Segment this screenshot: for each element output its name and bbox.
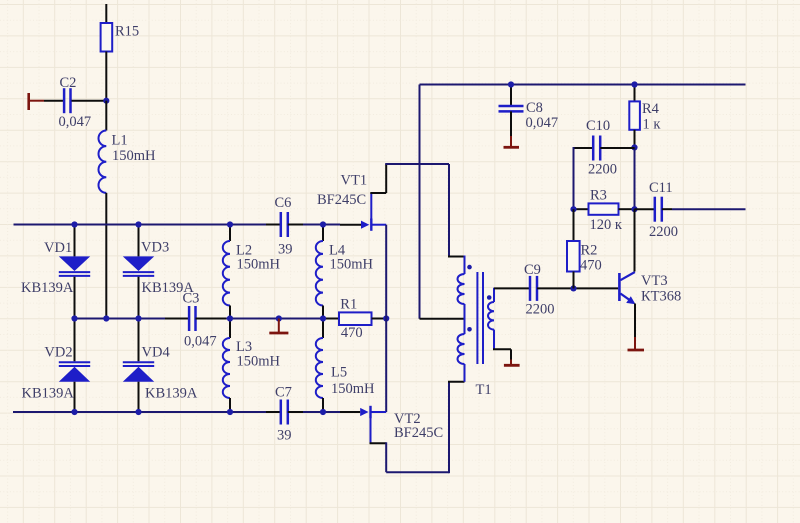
capacitor C10 xyxy=(574,147,594,149)
resistor R1 xyxy=(323,318,339,320)
svg-text:150mH: 150mH xyxy=(330,257,374,273)
svg-text:39: 39 xyxy=(278,242,293,258)
node top bus junctions xyxy=(71,221,77,227)
resistor R3 xyxy=(574,208,589,210)
svg-text:0,047: 0,047 xyxy=(59,114,92,130)
inductor L4 xyxy=(322,225,324,242)
diode VD1 xyxy=(74,225,76,257)
wire C2 to node xyxy=(72,100,107,102)
wire C10 left leg down xyxy=(573,147,575,209)
inductor L2 xyxy=(229,225,231,242)
wire top bus (left section) xyxy=(14,224,341,226)
svg-text:0,047: 0,047 xyxy=(184,334,217,350)
wire R3 node to R2 xyxy=(573,209,575,241)
svg-text:KB139A: KB139A xyxy=(21,280,74,296)
node R2/C9 xyxy=(570,285,576,291)
wire VT3 collector xyxy=(634,209,636,271)
svg-text:C8: C8 xyxy=(526,100,543,116)
svg-text:150mH: 150mH xyxy=(331,381,375,397)
wire VT1 source / VT2 drain xyxy=(385,225,387,412)
node middle bus junctions xyxy=(71,315,77,321)
diode VD4 xyxy=(138,319,140,362)
wire L3 to bottom bus xyxy=(229,398,231,412)
svg-text:R3: R3 xyxy=(590,188,607,204)
ground (VT3) xyxy=(634,337,636,349)
transformer T1 core xyxy=(476,272,478,364)
svg-text:КТ368: КТ368 xyxy=(641,289,681,305)
port P1 xyxy=(27,93,30,110)
svg-text:KB139A: KB139A xyxy=(145,386,198,402)
wire middle bus xyxy=(75,318,387,320)
svg-text:L1: L1 xyxy=(112,133,128,149)
wire node to L1 xyxy=(105,101,107,131)
diode VD2 xyxy=(74,319,76,362)
svg-text:C6: C6 xyxy=(275,195,292,211)
capacitor C7 xyxy=(266,411,281,413)
inductor L1 xyxy=(98,131,106,193)
svg-text:C9: C9 xyxy=(524,262,541,278)
svg-text:BF245C: BF245C xyxy=(394,425,443,441)
wire T1 secondary to C9 xyxy=(494,287,530,289)
capacitor C8 xyxy=(499,105,524,108)
wire T1 secondary to ground xyxy=(493,348,511,350)
svg-text:VT1: VT1 xyxy=(341,173,368,189)
svg-text:150mH: 150mH xyxy=(237,257,281,273)
wire VT3 emitter to ground xyxy=(634,304,636,338)
ground (middle bus) xyxy=(276,315,282,321)
svg-text:150mH: 150mH xyxy=(237,354,281,370)
svg-text:BF245C: BF245C xyxy=(317,192,366,208)
transistor VT1 (JFET) xyxy=(340,224,361,226)
wire R15 to C2 node xyxy=(105,52,107,101)
wire bottom bus xyxy=(13,411,340,413)
svg-text:C10: C10 xyxy=(586,118,610,134)
svg-text:2200: 2200 xyxy=(649,224,678,240)
svg-text:C3: C3 xyxy=(183,291,200,307)
ground (T1 secondary) xyxy=(510,360,512,365)
wire L5 to bottom bus xyxy=(322,398,324,412)
wire R15 top stub xyxy=(105,4,107,23)
inductor L5 xyxy=(322,306,324,339)
svg-text:R15: R15 xyxy=(115,24,139,40)
transistor VT3 (NPN) xyxy=(618,273,621,301)
svg-text:39: 39 xyxy=(277,428,292,444)
wire C9 to VT3 base xyxy=(537,287,618,289)
wire L1 to middle bus xyxy=(105,193,107,319)
svg-text:VD2: VD2 xyxy=(44,345,72,361)
capacitor C2 xyxy=(63,88,66,113)
svg-text:0,047: 0,047 xyxy=(526,115,559,131)
svg-text:VD1: VD1 xyxy=(44,240,72,256)
wire VT1 drain to T1 xyxy=(385,163,449,165)
wire C8 from bus xyxy=(510,86,512,107)
transformer T1 secondary xyxy=(493,288,495,302)
transistor VT2 (JFET) xyxy=(340,411,360,413)
svg-text:KB139A: KB139A xyxy=(22,386,75,402)
inductor L3 xyxy=(229,306,231,339)
capacitor C3 xyxy=(165,318,189,320)
resistor R15 xyxy=(101,23,113,52)
capacitor C6 xyxy=(266,224,281,226)
node R4/C10 xyxy=(631,144,637,150)
wire bus drop to T1 center tap xyxy=(419,85,421,319)
resistor R2 xyxy=(567,241,580,272)
wire VT2 source to T1 xyxy=(385,442,387,472)
node C2/R15/L1 xyxy=(103,98,109,104)
svg-text:470: 470 xyxy=(341,325,363,341)
svg-text:2200: 2200 xyxy=(526,302,555,318)
capacitor C11 xyxy=(635,208,655,210)
svg-text:VD4: VD4 xyxy=(142,345,171,361)
svg-text:L5: L5 xyxy=(331,365,347,381)
svg-text:150mH: 150mH xyxy=(112,148,156,164)
node R4/bus xyxy=(631,81,637,87)
svg-text:R4: R4 xyxy=(642,101,660,117)
svg-text:C11: C11 xyxy=(649,180,673,196)
svg-text:C7: C7 xyxy=(275,384,292,400)
wire port to C2 xyxy=(44,100,63,102)
svg-text:C2: C2 xyxy=(60,75,77,91)
resistor R4 xyxy=(634,86,636,102)
wire R4 node down to R3 node xyxy=(634,147,636,209)
node bottom bus junctions xyxy=(71,409,77,415)
svg-text:VD3: VD3 xyxy=(141,240,169,256)
svg-text:1 к: 1 к xyxy=(643,117,662,133)
svg-text:VT3: VT3 xyxy=(641,273,668,289)
transformer T1 primary xyxy=(464,256,466,275)
node C8/bus xyxy=(508,81,514,87)
svg-text:R1: R1 xyxy=(340,297,357,313)
svg-text:2200: 2200 xyxy=(588,162,617,178)
svg-text:120 к: 120 к xyxy=(590,217,623,233)
wire top bus (right section) xyxy=(420,84,746,86)
svg-text:470: 470 xyxy=(580,258,602,274)
diode VD3 xyxy=(138,225,140,257)
capacitor C9 xyxy=(529,276,532,301)
ground (C8) xyxy=(510,136,512,146)
svg-text:R2: R2 xyxy=(581,243,598,259)
svg-text:T1: T1 xyxy=(476,382,492,398)
